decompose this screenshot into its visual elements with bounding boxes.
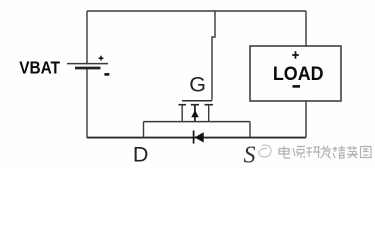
svg-text:VBAT: VBAT (19, 57, 60, 77)
svg-text:S: S (244, 143, 256, 169)
svg-text:D: D (133, 143, 149, 167)
svg-text:G: G (189, 72, 206, 96)
svg-text:LOAD: LOAD (273, 63, 324, 85)
